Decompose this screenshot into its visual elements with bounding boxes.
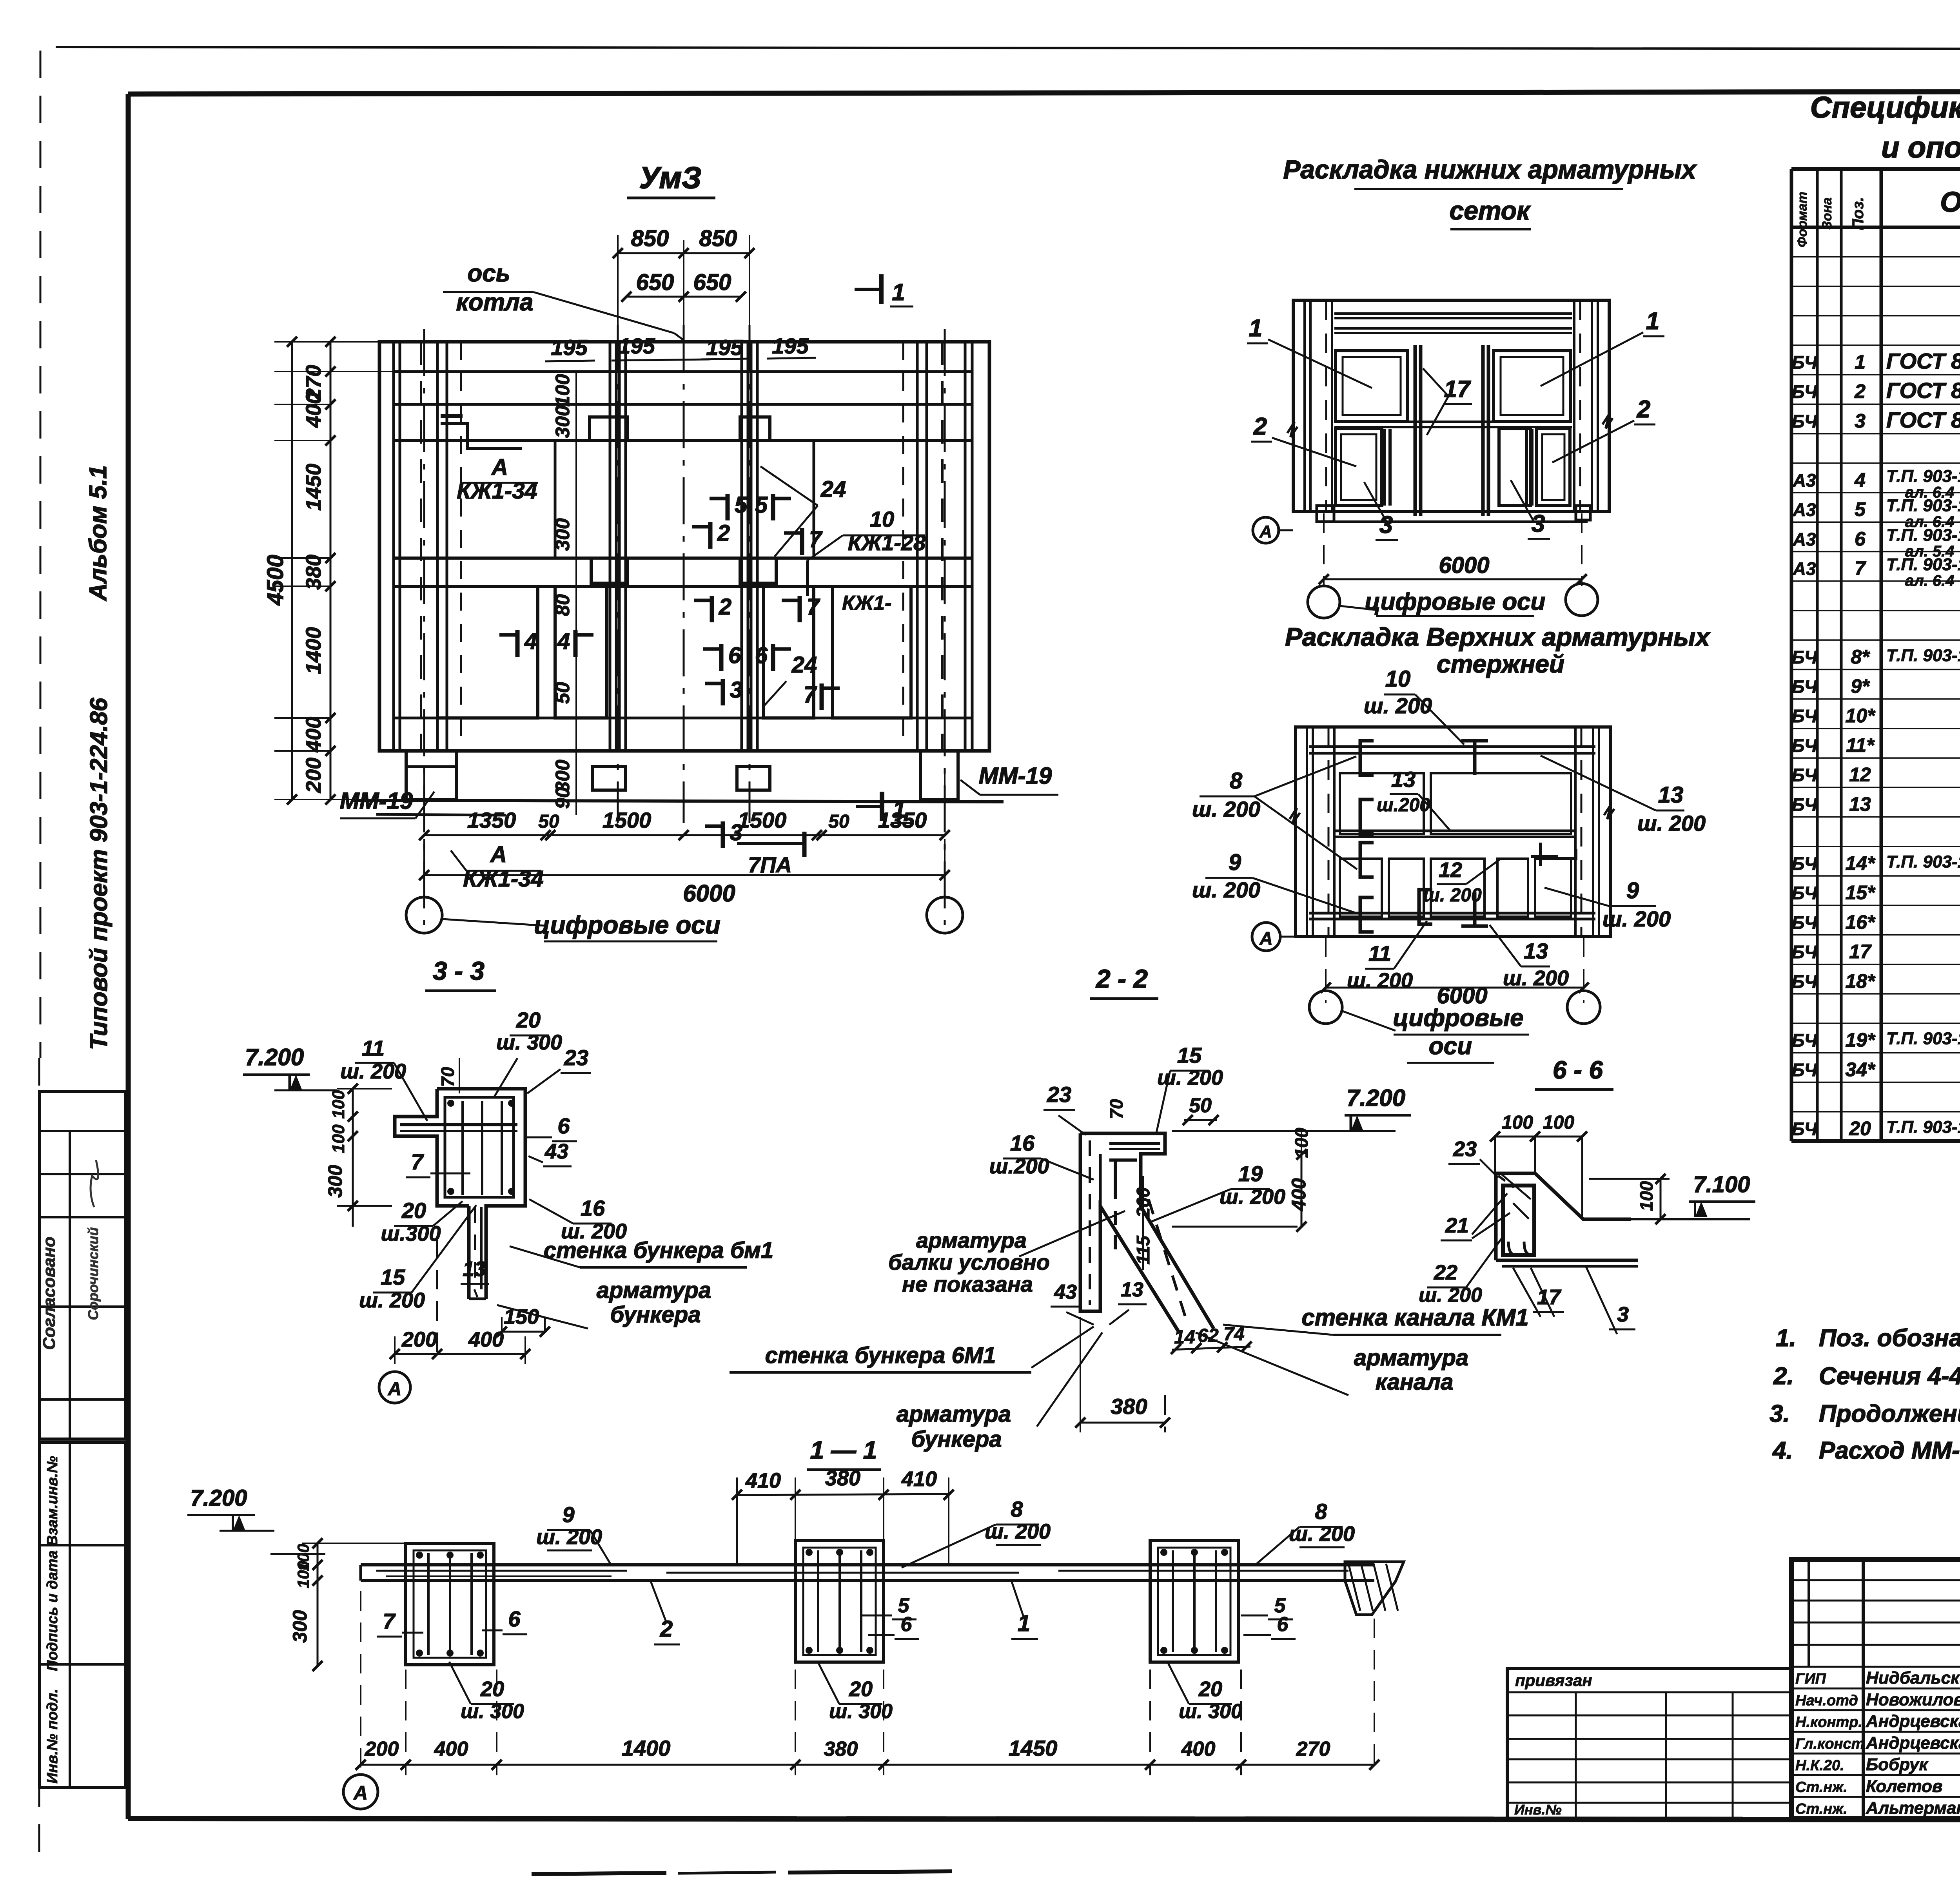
svg-text:сеток: сеток <box>1450 196 1532 225</box>
svg-text:2: 2 <box>1253 413 1267 440</box>
svg-text:195: 195 <box>551 335 588 360</box>
svg-text:850: 850 <box>631 226 669 251</box>
svg-text:Бобрук: Бобрук <box>1866 1755 1929 1774</box>
svg-text:22: 22 <box>1434 1261 1457 1284</box>
svg-text:195: 195 <box>772 334 809 358</box>
svg-text:2 - 2: 2 - 2 <box>1095 964 1148 993</box>
svg-text:9*: 9* <box>1851 675 1870 697</box>
svg-text:1: 1 <box>1855 351 1866 373</box>
svg-text:БЧ: БЧ <box>1792 706 1818 726</box>
svg-text:11: 11 <box>1368 941 1391 966</box>
svg-text:7ПА: 7ПА <box>748 852 792 877</box>
svg-text:1450: 1450 <box>1009 1736 1058 1760</box>
svg-text:ш. 300: ш. 300 <box>496 1031 562 1054</box>
svg-text:ось: ось <box>467 260 510 287</box>
svg-text:1450: 1450 <box>302 464 325 511</box>
svg-text:12: 12 <box>1849 764 1871 786</box>
svg-text:арматура: арматура <box>1354 1345 1468 1370</box>
svg-text:8: 8 <box>1315 1499 1327 1524</box>
svg-text:200: 200 <box>365 1738 399 1760</box>
svg-text:10: 10 <box>1385 666 1411 692</box>
svg-text:650: 650 <box>693 270 731 295</box>
svg-text:стенка канала КМ1: стенка канала КМ1 <box>1301 1304 1528 1331</box>
svg-text:привязан: привязан <box>1515 1671 1592 1690</box>
svg-text:50: 50 <box>552 682 573 704</box>
svg-text:Поз.: Поз. <box>1849 197 1867 230</box>
svg-text:13: 13 <box>1391 767 1416 792</box>
svg-text:43: 43 <box>1054 1281 1077 1303</box>
svg-text:400: 400 <box>468 1328 504 1351</box>
svg-text:6: 6 <box>728 643 741 668</box>
svg-text:Ст.нж.: Ст.нж. <box>1795 1801 1847 1817</box>
svg-text:Инв.№ подл.: Инв.№ подл. <box>44 1689 61 1784</box>
svg-text:6 - 6: 6 - 6 <box>1553 1056 1603 1084</box>
svg-text:Раскладка Верхних арматурных: Раскладка Верхних арматурных <box>1285 622 1711 651</box>
svg-text:2: 2 <box>719 594 731 620</box>
svg-text:90: 90 <box>552 787 573 809</box>
svg-text:4: 4 <box>524 629 537 654</box>
svg-text:7.200: 7.200 <box>1347 1085 1405 1111</box>
svg-text:3: 3 <box>730 820 742 845</box>
svg-text:А: А <box>1259 928 1272 948</box>
svg-text:1400: 1400 <box>622 1736 671 1760</box>
svg-text:ГОСТ 8478-81: ГОСТ 8478-81 <box>1886 378 1960 403</box>
svg-text:КЖ1-: КЖ1- <box>842 592 891 615</box>
svg-text:оси: оси <box>1429 1033 1472 1060</box>
svg-text:Типовой проект 903-1-224.86: Типовой проект 903-1-224.86 <box>85 698 113 1050</box>
svg-text:13: 13 <box>1121 1278 1143 1301</box>
svg-text:8: 8 <box>1230 768 1243 794</box>
svg-text:1: 1 <box>892 279 905 305</box>
svg-text:7: 7 <box>383 1609 396 1633</box>
svg-text:3: 3 <box>1617 1303 1629 1326</box>
svg-text:9: 9 <box>1229 850 1241 875</box>
svg-text:50: 50 <box>538 811 559 832</box>
svg-text:А3: А3 <box>1793 470 1816 490</box>
svg-text:БЧ: БЧ <box>1792 912 1818 933</box>
svg-text:70: 70 <box>437 1067 458 1087</box>
svg-text:ш. 200: ш. 200 <box>1192 877 1260 902</box>
svg-text:Инв.№: Инв.№ <box>1514 1802 1562 1818</box>
svg-text:ГИП: ГИП <box>1795 1671 1826 1687</box>
svg-text:24: 24 <box>791 652 817 678</box>
svg-text:13: 13 <box>463 1257 486 1281</box>
svg-text:13: 13 <box>1849 793 1871 815</box>
svg-text:5: 5 <box>755 492 768 518</box>
svg-text:3: 3 <box>1379 511 1393 538</box>
svg-text:Т.П. 903-1-224.86 КЖ1.УМ3.3.: Т.П. 903-1-224.86 КЖ1.УМ3.3.3 <box>1886 1029 1960 1048</box>
svg-text:13: 13 <box>1658 782 1684 808</box>
svg-text:11*: 11* <box>1846 734 1875 756</box>
svg-text:14*: 14* <box>1845 852 1876 874</box>
svg-text:4: 4 <box>1854 469 1866 491</box>
svg-text:БЧ: БЧ <box>1792 382 1818 402</box>
svg-text:Взам.инв.№: Взам.инв.№ <box>44 1456 61 1546</box>
svg-text:2: 2 <box>1854 381 1866 402</box>
svg-text:19: 19 <box>1238 1161 1263 1186</box>
svg-text:Андрцевская: Андрцевская <box>1866 1733 1960 1753</box>
svg-text:20: 20 <box>1849 1117 1871 1139</box>
svg-text:БЧ: БЧ <box>1792 735 1818 756</box>
svg-text:100: 100 <box>329 1090 348 1119</box>
svg-text:6: 6 <box>557 1113 570 1138</box>
svg-text:4: 4 <box>557 629 570 654</box>
svg-text:стенка бункера 6М1: стенка бункера 6М1 <box>765 1343 996 1368</box>
svg-text:Т.П. 903-1-224.86 КЖ1.УМ3.3.: Т.П. 903-1-224.86 КЖ1.УМ3.3.2 <box>1886 852 1960 871</box>
svg-text:1400: 1400 <box>302 627 325 674</box>
svg-text:9: 9 <box>1626 878 1639 903</box>
svg-text:Ст.нж.: Ст.нж. <box>1795 1779 1847 1796</box>
svg-text:8: 8 <box>1011 1497 1023 1521</box>
svg-text:195: 195 <box>706 335 743 360</box>
svg-text:Альбом 5.1: Альбом 5.1 <box>85 465 112 602</box>
svg-text:цифровые оси: цифровые оси <box>534 911 720 939</box>
svg-text:7: 7 <box>411 1149 424 1174</box>
svg-text:3: 3 <box>730 677 742 703</box>
svg-text:Т.П. 903-1-224.86 КЖИ.2.1-04: Т.П. 903-1-224.86 КЖИ.2.1-04 <box>1886 496 1960 515</box>
svg-text:БЧ: БЧ <box>1792 647 1818 667</box>
svg-text:Альтерман: Альтерман <box>1866 1798 1960 1818</box>
svg-text:380: 380 <box>825 1467 860 1490</box>
svg-text:100: 100 <box>1502 1112 1533 1133</box>
svg-text:10: 10 <box>870 507 894 531</box>
svg-text:3: 3 <box>1532 510 1545 537</box>
svg-text:Гл.конст: Гл.конст <box>1795 1736 1864 1752</box>
svg-text:15: 15 <box>381 1265 405 1289</box>
svg-text:5: 5 <box>1855 499 1866 520</box>
svg-text:100: 100 <box>329 1124 348 1153</box>
svg-text:Сорочинский: Сорочинский <box>85 1227 101 1320</box>
svg-text:БЧ: БЧ <box>1792 971 1818 992</box>
svg-text:5: 5 <box>735 492 748 518</box>
svg-text:3 - 3: 3 - 3 <box>433 956 485 985</box>
svg-text:Обозначение: Обозначение <box>1940 187 1960 218</box>
svg-text:стенка бункера бм1: стенка бункера бм1 <box>544 1238 773 1263</box>
svg-text:3: 3 <box>1855 410 1866 432</box>
svg-text:А3: А3 <box>1793 529 1816 549</box>
svg-text:24: 24 <box>820 477 846 502</box>
svg-text:16: 16 <box>1010 1131 1035 1155</box>
svg-text:ш. 200: ш. 200 <box>1423 885 1482 906</box>
svg-text:23: 23 <box>1047 1082 1071 1107</box>
svg-text:1: 1 <box>1018 1611 1030 1636</box>
svg-text:10*: 10* <box>1845 705 1876 727</box>
svg-text:13: 13 <box>1524 939 1548 963</box>
svg-text:23: 23 <box>564 1045 588 1070</box>
svg-text:7.200: 7.200 <box>245 1044 304 1070</box>
svg-text:6: 6 <box>508 1606 521 1631</box>
svg-text:БЧ: БЧ <box>1792 1118 1818 1139</box>
svg-text:200: 200 <box>302 758 325 793</box>
svg-text:4.: 4. <box>1772 1437 1793 1464</box>
svg-text:бункера: бункера <box>911 1427 1002 1452</box>
svg-text:Т.П. 903-1-224.86 КЖИ.2.1-05: Т.П. 903-1-224.86 КЖИ.2.1-05 <box>1886 526 1960 545</box>
svg-text:7: 7 <box>804 682 817 707</box>
svg-text:ш. 200: ш. 200 <box>1347 969 1413 992</box>
svg-text:195: 195 <box>618 334 655 358</box>
svg-text:14: 14 <box>1174 1327 1195 1348</box>
svg-text:ГОСТ 8478-81: ГОСТ 8478-81 <box>1886 349 1960 373</box>
svg-text:34*: 34* <box>1845 1059 1876 1080</box>
svg-text:ш. 200: ш. 200 <box>1192 797 1260 821</box>
svg-text:Нач.отд: Нач.отд <box>1795 1692 1858 1709</box>
svg-text:А: А <box>490 842 507 867</box>
svg-text:Формат: Формат <box>1795 192 1810 247</box>
svg-text:380: 380 <box>824 1738 858 1760</box>
svg-text:ш. 200: ш. 200 <box>1289 1522 1355 1546</box>
svg-text:арматура: арматура <box>897 1401 1011 1427</box>
svg-text:Раскладка нижних арматурных: Раскладка нижних арматурных <box>1283 155 1697 184</box>
svg-text:Поз. обозначеные (*) см. Вед: Поз. обозначеные (*) см. Ведомость детал… <box>1819 1325 1960 1352</box>
svg-text:Новожилова: Новожилова <box>1866 1690 1960 1709</box>
svg-text:2: 2 <box>717 520 730 546</box>
svg-text:8*: 8* <box>1851 646 1870 668</box>
svg-text:А: А <box>353 1782 368 1804</box>
svg-text:А: А <box>491 455 508 480</box>
svg-text:БЧ: БЧ <box>1792 883 1818 903</box>
svg-text:410: 410 <box>901 1467 937 1491</box>
svg-text:ал. 6.4: ал. 6.4 <box>1905 572 1954 589</box>
svg-text:6: 6 <box>1855 528 1866 550</box>
svg-text:9: 9 <box>562 1502 574 1527</box>
svg-text:1: 1 <box>1249 315 1262 342</box>
svg-text:Подпись и дата: Подпись и дата <box>44 1550 61 1671</box>
svg-text:БЧ: БЧ <box>1792 794 1818 815</box>
svg-text:БЧ: БЧ <box>1792 411 1818 431</box>
svg-text:ш. 200: ш. 200 <box>1602 906 1671 931</box>
svg-text:КЖ1-28: КЖ1-28 <box>848 530 926 555</box>
svg-text:400: 400 <box>302 717 325 752</box>
svg-text:и опорных подушек ОП1, ОП2 (: и опорных подушек ОП1, ОП2 (начало). <box>1881 131 1960 164</box>
svg-text:70: 70 <box>1106 1099 1127 1119</box>
svg-text:21: 21 <box>1445 1214 1469 1237</box>
svg-text:15*: 15* <box>1845 882 1876 904</box>
svg-text:20: 20 <box>516 1008 541 1032</box>
svg-text:300: 300 <box>324 1165 346 1198</box>
svg-text:Спецификация монолитных учас: Спецификация монолитных участков УмЗ, Ум… <box>1810 91 1960 124</box>
svg-text:1350: 1350 <box>467 808 516 832</box>
svg-text:6: 6 <box>755 643 768 668</box>
svg-text:150: 150 <box>504 1305 539 1329</box>
svg-text:ш. 200: ш. 200 <box>536 1525 602 1549</box>
svg-text:20: 20 <box>849 1677 873 1701</box>
svg-text:ГОСТ 8478-81: ГОСТ 8478-81 <box>1886 408 1960 432</box>
svg-text:300: 300 <box>552 518 573 551</box>
svg-text:1: 1 <box>893 796 906 823</box>
svg-text:15: 15 <box>1177 1043 1202 1068</box>
svg-text:7: 7 <box>807 594 820 620</box>
svg-text:Н.К.20.: Н.К.20. <box>1795 1757 1844 1774</box>
svg-text:6: 6 <box>901 1613 913 1636</box>
svg-text:ММ-19: ММ-19 <box>979 763 1052 789</box>
svg-text:арматура: арматура <box>916 1228 1027 1253</box>
svg-text:100: 100 <box>1636 1181 1657 1211</box>
svg-text:17: 17 <box>1849 941 1872 963</box>
svg-text:А: А <box>1259 522 1272 541</box>
svg-text:2: 2 <box>1637 396 1650 423</box>
svg-text:410: 410 <box>745 1469 781 1492</box>
svg-text:400: 400 <box>434 1738 468 1760</box>
svg-text:Андрцевская: Андрцевская <box>1866 1712 1960 1731</box>
svg-text:цифровые: цифровые <box>1393 1004 1523 1031</box>
svg-text:БЧ: БЧ <box>1792 352 1818 373</box>
svg-text:100: 100 <box>1543 1112 1574 1133</box>
svg-text:Н.контр.: Н.контр. <box>1795 1714 1862 1731</box>
svg-text:Согласовано: Согласовано <box>40 1236 59 1350</box>
svg-text:100: 100 <box>294 1561 312 1588</box>
svg-text:стержней: стержней <box>1437 650 1564 678</box>
svg-text:80: 80 <box>552 594 573 616</box>
svg-text:100: 100 <box>552 374 573 407</box>
svg-text:6: 6 <box>1277 1613 1289 1636</box>
svg-text:канала: канала <box>1376 1369 1454 1395</box>
svg-text:БЧ: БЧ <box>1792 1060 1818 1080</box>
svg-text:БЧ: БЧ <box>1792 765 1818 785</box>
svg-text:50: 50 <box>828 811 849 832</box>
svg-text:Т.П. 903-1-224.86 КЖ1.УМ3.3.4: Т.П. 903-1-224.86 КЖ1.УМ3.3.4 <box>1886 1117 1960 1137</box>
svg-text:11: 11 <box>362 1036 385 1060</box>
svg-text:850: 850 <box>699 226 737 251</box>
svg-text:43: 43 <box>544 1140 568 1163</box>
svg-text:ш. 200: ш. 200 <box>1503 966 1569 990</box>
svg-text:Зона: Зона <box>1820 198 1835 230</box>
svg-text:4500: 4500 <box>263 555 288 605</box>
svg-text:380: 380 <box>302 555 325 590</box>
svg-text:380: 380 <box>1111 1394 1147 1419</box>
svg-text:7: 7 <box>1855 557 1866 579</box>
svg-text:Сечения 4-4÷7-7 см. л. КЖ1: Сечения 4-4÷7-7 см. л. КЖ1-28. <box>1819 1363 1960 1390</box>
svg-text:16: 16 <box>581 1196 605 1220</box>
svg-text:1500: 1500 <box>738 808 787 832</box>
svg-text:3.: 3. <box>1769 1400 1790 1427</box>
svg-text:Т.П. 903-1-224.86 КЖИ.2.2-05: Т.П. 903-1-224.86 КЖИ.2.2-05 <box>1886 555 1960 574</box>
svg-text:арматура: арматура <box>597 1278 711 1303</box>
svg-text:БЧ: БЧ <box>1792 942 1818 962</box>
svg-text:300: 300 <box>289 1610 311 1643</box>
svg-text:50: 50 <box>1189 1094 1212 1117</box>
svg-text:650: 650 <box>636 270 674 295</box>
svg-text:400: 400 <box>1288 1178 1310 1211</box>
svg-text:цифровые оси: цифровые оси <box>1365 588 1546 615</box>
svg-text:1: 1 <box>1646 308 1659 335</box>
svg-text:А: А <box>388 1379 402 1399</box>
svg-text:400: 400 <box>1181 1738 1216 1760</box>
svg-text:1 — 1: 1 — 1 <box>810 1436 877 1464</box>
svg-text:Нидбальский: Нидбальский <box>1866 1668 1960 1688</box>
svg-text:А3: А3 <box>1793 500 1816 520</box>
svg-text:не показана: не показана <box>902 1272 1033 1296</box>
svg-text:12: 12 <box>1439 858 1462 882</box>
svg-text:Колетов: Колетов <box>1866 1777 1943 1796</box>
svg-text:УмЗ: УмЗ <box>639 160 702 195</box>
svg-text:20: 20 <box>480 1677 504 1701</box>
svg-text:20: 20 <box>401 1198 426 1223</box>
svg-text:ш. 200: ш. 200 <box>1364 693 1432 718</box>
svg-text:ш. 200: ш. 200 <box>1637 811 1706 836</box>
svg-text:Т.П. 903-1-224.86 КЖ1.УМ3.3.1: Т.П. 903-1-224.86 КЖ1.УМ3.3.1 <box>1886 646 1960 665</box>
svg-text:7.200: 7.200 <box>190 1485 247 1511</box>
svg-text:7: 7 <box>809 527 823 552</box>
svg-text:Продолжение спецификации см.: Продолжение спецификации см. л. КЖ1-28. <box>1819 1400 1960 1427</box>
svg-text:1.: 1. <box>1776 1325 1796 1352</box>
svg-text:23: 23 <box>1453 1137 1477 1161</box>
svg-text:1500: 1500 <box>603 808 652 832</box>
svg-text:400: 400 <box>302 392 325 428</box>
svg-text:БЧ: БЧ <box>1792 853 1818 874</box>
svg-text:19*: 19* <box>1845 1029 1876 1051</box>
svg-text:6000: 6000 <box>683 880 735 906</box>
svg-text:7.100: 7.100 <box>1693 1172 1750 1197</box>
svg-text:200: 200 <box>401 1328 437 1351</box>
svg-text:16*: 16* <box>1845 911 1876 933</box>
svg-text:Т.П. 903-1-224.86 КЖИ.2.2-04: Т.П. 903-1-224.86 КЖИ.2.2-04 <box>1886 466 1960 486</box>
svg-text:18*: 18* <box>1845 970 1876 992</box>
svg-text:БЧ: БЧ <box>1792 676 1818 697</box>
svg-text:А3: А3 <box>1793 558 1816 579</box>
svg-text:20: 20 <box>1198 1677 1222 1701</box>
svg-text:270: 270 <box>1296 1738 1330 1760</box>
svg-text:300: 300 <box>552 405 573 438</box>
svg-text:2.: 2. <box>1773 1363 1794 1390</box>
svg-text:ММ-19: ММ-19 <box>340 788 413 814</box>
svg-text:бункера: бункера <box>610 1302 701 1327</box>
svg-text:ш. 200: ш. 200 <box>985 1520 1051 1543</box>
svg-text:БЧ: БЧ <box>1792 1030 1818 1051</box>
svg-text:6000: 6000 <box>1439 553 1489 578</box>
svg-text:Расход ММ-19 дан на листе: Расход ММ-19 дан на листе КЖ1-7. <box>1819 1437 1960 1464</box>
